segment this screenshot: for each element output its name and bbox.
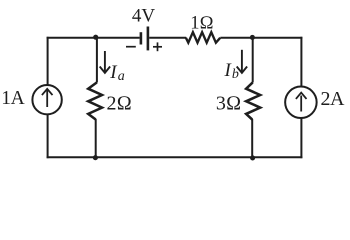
node dot bottom at 2-ohm branch: [93, 155, 98, 160]
svg-text:4V: 4V: [132, 6, 156, 27]
wire top-middle horizontal battery to R1: [149, 37, 186, 39]
wire bottom horizontal: [47, 156, 303, 158]
svg-text:1Ω: 1Ω: [190, 13, 213, 33]
wire right vertical upper: [300, 37, 302, 87]
battery plus sign: [153, 42, 162, 51]
current source I2 2A circle: [285, 87, 317, 119]
current arrow Ia: [100, 51, 110, 73]
wire top-right horizontal R1 to corner: [220, 37, 302, 39]
battery V1 positive long plate: [147, 27, 150, 51]
arrow inside 1A source: [42, 89, 53, 107]
wire top-left horizontal: [47, 37, 140, 39]
resistor R1 1-ohm zigzag: [186, 32, 220, 43]
wire left vertical lower: [47, 114, 49, 159]
node dot bottom at 3-ohm branch: [250, 155, 255, 160]
wire 3-ohm branch upper: [252, 38, 254, 83]
svg-text:1A: 1A: [1, 88, 24, 109]
svg-text:b: b: [232, 67, 239, 82]
svg-text:3Ω: 3Ω: [216, 92, 241, 114]
wire left vertical upper: [47, 37, 49, 86]
wire 3-ohm branch lower: [251, 119, 253, 157]
wire 2-ohm branch lower: [95, 119, 97, 157]
battery minus sign: [126, 46, 136, 48]
current arrow Ib: [237, 50, 247, 73]
svg-text:a: a: [118, 69, 125, 84]
wire 2-ohm branch upper: [96, 38, 98, 83]
resistor R2 2-ohm zigzag: [88, 82, 102, 119]
node dot top at 2-ohm branch: [93, 35, 98, 40]
current source I1 1A circle: [32, 85, 61, 114]
arrow inside 2A source: [296, 93, 307, 112]
resistor R3 3-ohm zigzag: [246, 82, 260, 119]
battery V1 negative short plate: [140, 32, 143, 44]
svg-text:2A: 2A: [321, 88, 346, 110]
svg-text:2Ω: 2Ω: [107, 92, 132, 114]
node dot top at 3-ohm branch: [250, 35, 255, 40]
wire right vertical lower: [300, 118, 302, 159]
